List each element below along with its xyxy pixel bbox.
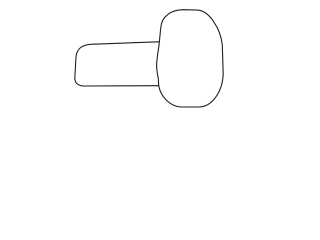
part stem outline (rounded shank, hand-drawn) [75,42,159,86]
part head outline (large rounded knob head, hand-drawn) [157,10,224,107]
